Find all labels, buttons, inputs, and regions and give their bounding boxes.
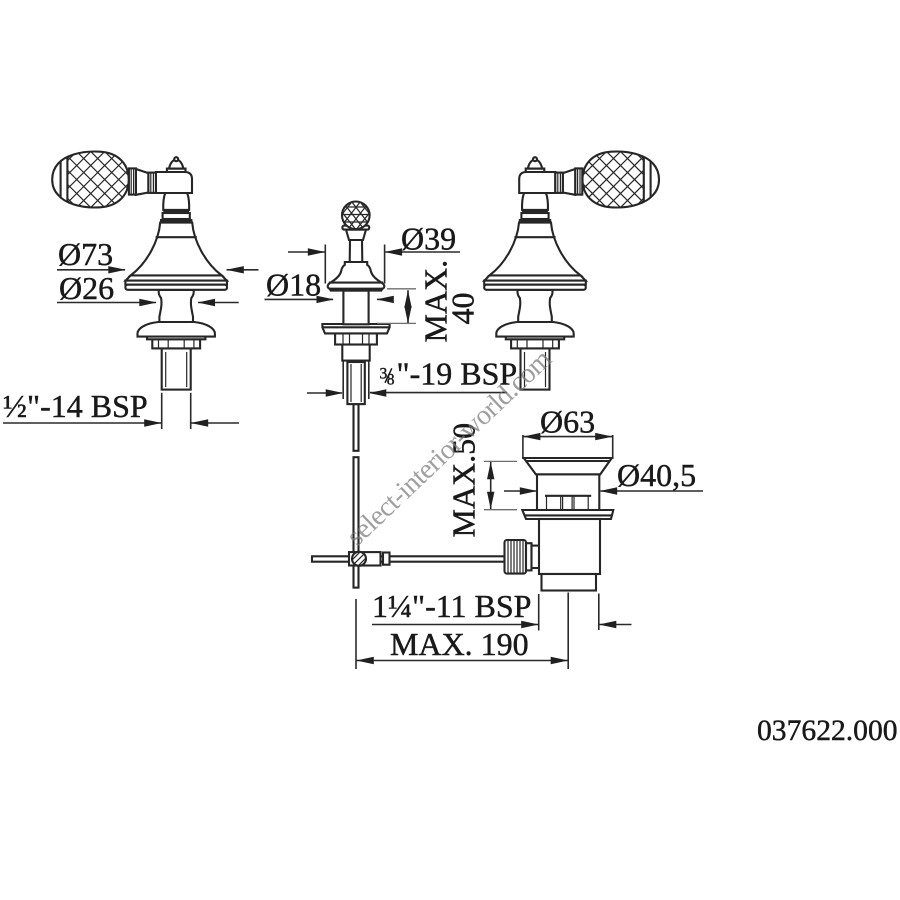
svg-text:Ø63: Ø63 (540, 404, 595, 440)
svg-text:Ø39: Ø39 (401, 221, 456, 257)
svg-text:Ø73: Ø73 (58, 236, 113, 272)
svg-text:8: 8 (387, 372, 395, 389)
svg-text:½"-14 BSP: ½"-14 BSP (3, 388, 148, 424)
svg-text:MAX. 190: MAX. 190 (390, 626, 529, 662)
svg-text:037622.000: 037622.000 (757, 715, 898, 747)
svg-text:Ø40,5: Ø40,5 (617, 457, 696, 493)
svg-text:40: 40 (445, 293, 481, 325)
svg-text:1¼"-11 BSP: 1¼"-11 BSP (372, 588, 531, 624)
svg-text:Ø26: Ø26 (59, 270, 114, 306)
svg-text:Ø18: Ø18 (266, 267, 321, 303)
